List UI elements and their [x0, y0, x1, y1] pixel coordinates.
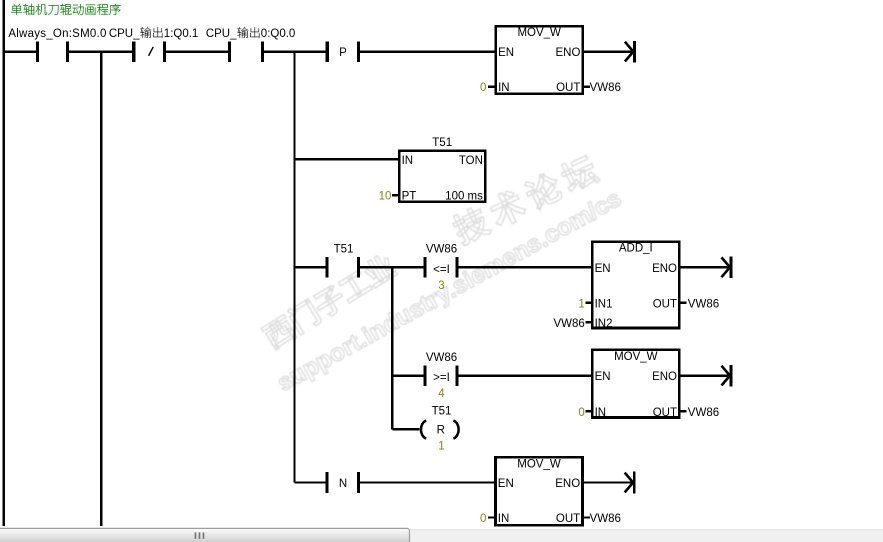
svg-text:VW86: VW86 — [590, 82, 621, 94]
arrow rung1 — [584, 50, 634, 52]
svg-text:IN: IN — [498, 82, 510, 94]
svg-text:VW86: VW86 — [590, 513, 621, 525]
pin tick PT — [392, 194, 398, 196]
svg-text:EN: EN — [595, 263, 611, 275]
svg-text:VW86: VW86 — [553, 318, 584, 330]
svg-text:IN2: IN2 — [595, 318, 613, 330]
contact P (positive edge) — [326, 41, 329, 62]
rung4 wire — [392, 374, 423, 376]
svg-text:ENO: ENO — [555, 47, 580, 59]
svg-text:4: 4 — [438, 388, 445, 400]
svg-text:VW86: VW86 — [688, 407, 719, 419]
wire P to MOV_W box — [360, 50, 494, 52]
svg-text:N: N — [339, 478, 347, 490]
wire to MOV_W rung4 — [459, 374, 591, 376]
wire to ADD_I — [459, 266, 591, 268]
svg-text:100 ms: 100 ms — [445, 191, 483, 203]
svg-text:OUT: OUT — [556, 513, 580, 525]
svg-text:IN1: IN1 — [595, 298, 613, 310]
left power rail — [3, 0, 5, 526]
svg-text:R: R — [437, 425, 445, 437]
branch wire down at x=101 — [100, 52, 102, 526]
svg-text:ENO: ENO — [555, 478, 580, 490]
svg-text:T51: T51 — [432, 137, 452, 149]
svg-text:<=I: <=I — [433, 264, 450, 276]
box MOV_W rung4 — [591, 349, 681, 419]
svg-text:VW86: VW86 — [426, 352, 457, 364]
svg-text:P: P — [339, 47, 347, 59]
branch wire down at x=294 — [293, 52, 295, 483]
svg-text:ENO: ENO — [652, 263, 677, 275]
svg-text:IN: IN — [402, 155, 414, 167]
svg-text:TON: TON — [459, 155, 483, 167]
svg-text:IN: IN — [595, 407, 607, 419]
wire to MOV_W rung5 — [360, 481, 494, 483]
svg-text:T51: T51 — [334, 244, 354, 256]
pin ticks MOV_W rung4 — [586, 410, 591, 412]
contact Always_On:SM0.0 — [4, 50, 36, 52]
scrollbar track — [0, 529, 883, 542]
svg-text:0:Q0.0: 0:Q0.0 — [261, 28, 296, 40]
svg-text:ADD_I: ADD_I — [619, 243, 653, 255]
arrow rung5 — [584, 481, 634, 483]
pin ticks ADD_I — [586, 302, 591, 304]
contact T51 rung3 — [325, 257, 328, 278]
svg-text:CPU_: CPU_ — [206, 28, 237, 40]
svg-text:3: 3 — [438, 280, 444, 292]
contact N (negative edge) — [325, 472, 328, 493]
rung3 wire — [295, 266, 328, 268]
branch wire down at x=392 — [391, 267, 393, 429]
arrow rung3 — [681, 266, 731, 268]
svg-text:OUT: OUT — [556, 82, 580, 94]
svg-text:1: 1 — [578, 298, 584, 310]
rung5 wire — [295, 481, 328, 483]
box ADD_I — [591, 240, 681, 329]
wire to TON box — [295, 158, 399, 160]
svg-text:MOV_W: MOV_W — [517, 27, 561, 39]
svg-text:OUT: OUT — [653, 298, 677, 310]
svg-text:0: 0 — [480, 513, 486, 525]
coil R parentheses — [421, 421, 426, 439]
svg-text:EN: EN — [595, 371, 611, 383]
pin ticks MOV_W rung5 — [488, 516, 494, 518]
svg-text:VW86: VW86 — [426, 244, 457, 256]
svg-text:VW86: VW86 — [688, 298, 719, 310]
NC slash — [149, 47, 154, 56]
svg-text:>=I: >=I — [433, 372, 450, 384]
svg-text:PT: PT — [402, 191, 417, 203]
svg-text:Always_On:SM0.0: Always_On:SM0.0 — [8, 28, 106, 40]
svg-text:EN: EN — [498, 478, 514, 490]
svg-text:T51: T51 — [432, 406, 452, 418]
contact CPU_out0:Q0.0 (NO) — [228, 41, 231, 62]
svg-text:MOV_W: MOV_W — [614, 351, 658, 363]
svg-text:10: 10 — [379, 191, 392, 203]
watermark: diagonal forum text — [261, 153, 601, 351]
svg-text:1:Q0.1: 1:Q0.1 — [164, 28, 199, 40]
svg-text:support.industry.siemens.com/c: support.industry.siemens.com/cs — [273, 185, 626, 397]
box TON T51 — [398, 150, 487, 204]
svg-text:IN: IN — [498, 513, 510, 525]
svg-text:ENO: ENO — [652, 371, 677, 383]
svg-text:0: 0 — [578, 407, 584, 419]
box MOV_W rung5 — [494, 456, 584, 526]
network title (green) — [11, 4, 120, 15]
box MOV_W rung1 — [495, 25, 585, 95]
svg-text:MOV_W: MOV_W — [517, 458, 561, 470]
contact VW86 >=I — [423, 365, 426, 386]
svg-text:1: 1 — [438, 440, 444, 452]
scrollbar thumb — [0, 528, 410, 542]
svg-text:EN: EN — [498, 47, 514, 59]
wire to R coil — [392, 428, 419, 430]
pin ticks MOV_W rung1 — [488, 85, 494, 87]
scrollbar grip — [195, 532, 205, 539]
svg-text:0: 0 — [480, 82, 486, 94]
contact VW86 <=I — [423, 257, 426, 278]
svg-text:CPU_: CPU_ — [109, 28, 140, 40]
svg-text:OUT: OUT — [653, 407, 677, 419]
arrow rung4 — [681, 374, 731, 376]
contact CPU_out1:Q0.1 (NC) — [132, 41, 135, 62]
